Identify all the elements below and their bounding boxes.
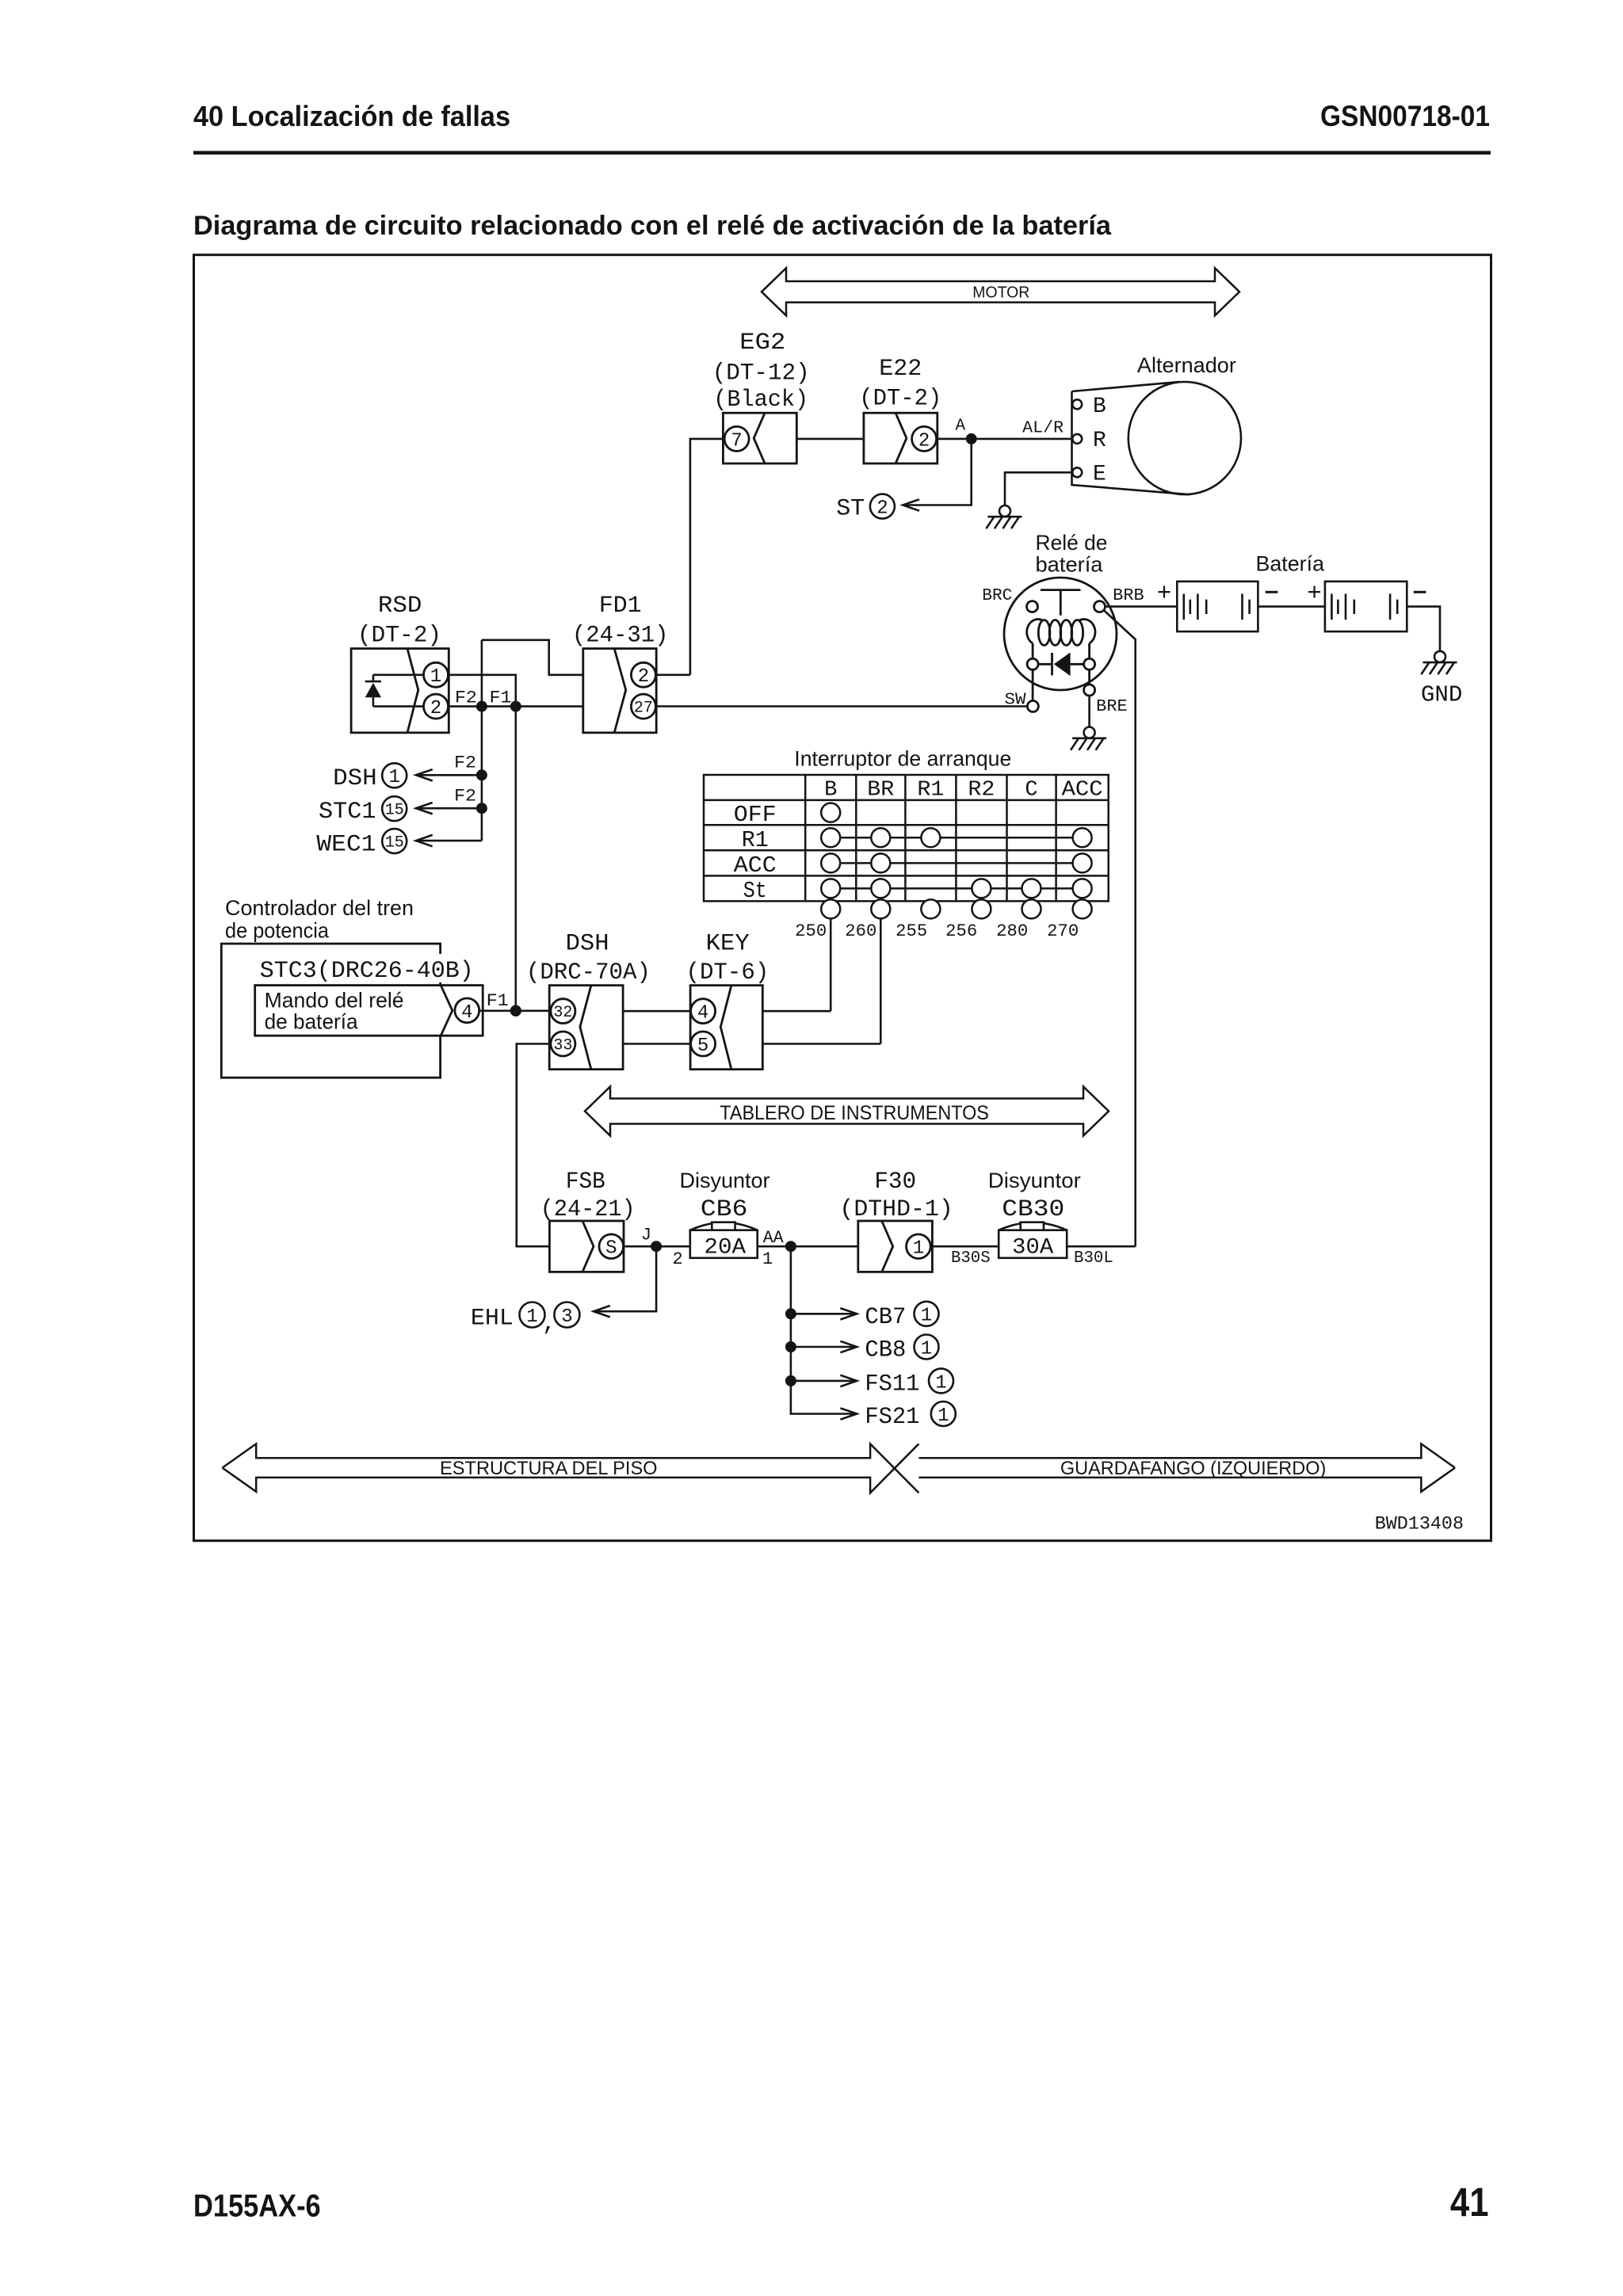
svg-text:F1: F1	[490, 688, 512, 708]
svg-text:TABLERO DE INSTRUMENTOS: TABLERO DE INSTRUMENTOS	[720, 1102, 989, 1124]
svg-text:GUARDAFANGO (IZQUIERDO): GUARDAFANGO (IZQUIERDO)	[1060, 1458, 1327, 1479]
svg-text:270: 270	[1047, 921, 1079, 941]
svg-text:(DT-2): (DT-2)	[859, 386, 941, 413]
wire E22 to node A to alternator R	[938, 438, 1072, 441]
wire KEY pin5 to terminal 260 riser	[762, 1043, 880, 1045]
row ACC contacts and links	[821, 853, 1091, 872]
svg-text:J: J	[641, 1226, 651, 1245]
svg-text:B: B	[824, 778, 837, 802]
rail diode to SW	[1032, 669, 1034, 700]
svg-text:BRC: BRC	[982, 587, 1012, 605]
arrowhead at ST	[903, 499, 919, 510]
svg-text:STC1: STC1	[319, 799, 376, 826]
svg-text:1: 1	[938, 1405, 949, 1427]
svg-text:255: 255	[896, 921, 927, 941]
alternator terminal B	[1072, 399, 1082, 409]
svg-text:2: 2	[638, 666, 649, 688]
DSH 1 branch	[416, 769, 482, 780]
connector DSH (DRC-70A)	[549, 986, 623, 1070]
svg-text:DSH: DSH	[333, 765, 377, 792]
wire FD1 pin27 to SW	[656, 705, 1027, 707]
junction dot F2	[476, 701, 487, 712]
wire AA riser down to FS21	[791, 1246, 857, 1413]
svg-text:EHL: EHL	[471, 1306, 514, 1333]
svg-text:A: A	[955, 418, 965, 436]
alternator terminal R	[1072, 434, 1082, 444]
svg-text:D155AX-6: D155AX-6	[193, 2189, 321, 2224]
row R1 contacts and links	[821, 828, 1091, 847]
svg-text:4: 4	[697, 1003, 708, 1024]
svg-text:CB7: CB7	[865, 1304, 906, 1331]
start switch table grid	[704, 775, 1109, 901]
svg-text:4: 4	[461, 1002, 472, 1024]
relay plunger T symbol	[1041, 590, 1081, 616]
svg-text:+: +	[1157, 578, 1171, 605]
wire RSD pin2 to FD1	[449, 705, 583, 707]
svg-text:1: 1	[913, 1238, 924, 1260]
row OFF contact	[821, 803, 840, 822]
relay diode D1 terminals	[1027, 658, 1038, 669]
mask for STC3 label over box edge	[434, 954, 480, 982]
svg-text:2: 2	[876, 498, 888, 520]
coil rails	[1033, 643, 1090, 658]
svg-text:1: 1	[921, 1338, 932, 1360]
svg-text:Alternador: Alternador	[1137, 353, 1236, 377]
wire BRE down to ground	[1088, 696, 1090, 727]
powertrain controller box	[221, 944, 440, 1077]
svg-text:WEC1: WEC1	[316, 831, 376, 858]
svg-text:F2: F2	[455, 688, 477, 708]
branch CB8	[791, 1341, 857, 1352]
BRB terminal circle	[1094, 601, 1106, 612]
wire alternator E to ground	[1005, 472, 1072, 505]
connector RSD (DT-2)	[351, 649, 449, 733]
svg-text:1: 1	[430, 666, 441, 688]
svg-text:OFF: OFF	[734, 802, 777, 828]
svg-text:B: B	[1093, 395, 1106, 419]
svg-text:27: 27	[634, 700, 653, 718]
STC1 15 branch	[416, 803, 482, 814]
svg-text:1: 1	[526, 1306, 537, 1328]
svg-text:(DT-12): (DT-12)	[712, 360, 810, 387]
wire EG2 pin7 to left corner and down to FD1 pin2 wire	[690, 439, 724, 675]
diode inside RSD	[365, 675, 424, 707]
svg-text:R2: R2	[968, 778, 995, 802]
BRC terminal circle	[1027, 601, 1038, 612]
WEC1 15 branch	[416, 835, 482, 846]
svg-text:2: 2	[430, 698, 441, 719]
svg-text:STC3(DRC26-40B): STC3(DRC26-40B)	[260, 958, 474, 985]
arrowhead at EHL	[594, 1306, 610, 1317]
wire J down and left to EHL	[594, 1246, 656, 1311]
wire battery2 to GND corner	[1407, 607, 1440, 651]
wire CB30 to B30L riser	[1067, 1245, 1136, 1248]
wire DSH pin33 to KEY pin5	[623, 1043, 690, 1045]
svg-text:(DT-2): (DT-2)	[357, 623, 441, 650]
svg-text:FD1: FD1	[599, 593, 642, 620]
row St contacts and links	[821, 879, 1091, 898]
connector F30 (DTHD-1)	[858, 1221, 933, 1272]
svg-text:280: 280	[996, 921, 1028, 941]
svg-text:BWD13408: BWD13408	[1375, 1514, 1464, 1535]
junction dot F1	[510, 701, 521, 712]
svg-text:FSB: FSB	[566, 1169, 605, 1196]
TABLERO DE INSTRUMENTOS double arrow	[585, 1087, 1109, 1136]
wire CB6 to AA to F30	[758, 1245, 858, 1248]
relay diode triangle	[1054, 653, 1071, 677]
svg-text:(24-21): (24-21)	[540, 1196, 636, 1223]
junction dot J	[651, 1241, 662, 1252]
relay coil L1	[1027, 620, 1044, 643]
svg-text:B30S: B30S	[951, 1249, 991, 1268]
svg-text:F2: F2	[454, 787, 476, 807]
svg-text:RSD: RSD	[378, 593, 422, 620]
wire KEY pin4 to terminal 250 riser	[762, 1010, 831, 1013]
svg-text:5: 5	[697, 1035, 708, 1057]
svg-text:ESTRUCTURA DEL PISO: ESTRUCTURA DEL PISO	[440, 1458, 658, 1479]
junction dot F1 at controller	[510, 1005, 521, 1016]
svg-text:250: 250	[795, 921, 827, 941]
svg-text:Disyuntor: Disyuntor	[988, 1169, 1081, 1192]
svg-text:F1: F1	[487, 991, 509, 1011]
circuit breaker CB30	[999, 1222, 1067, 1258]
branch FS11	[791, 1375, 857, 1386]
wire FD1 pin2 to vertical riser	[656, 673, 690, 676]
svg-text:ACC: ACC	[734, 852, 777, 879]
svg-text:1: 1	[935, 1372, 946, 1394]
switch terminal circles under table	[821, 899, 1091, 918]
connector EG2 (DT-12)(Black)	[723, 413, 796, 463]
svg-text:ACC: ACC	[1062, 778, 1103, 802]
STC3 connector box with signal cell	[255, 986, 483, 1036]
svg-text:20A: 20A	[704, 1236, 746, 1261]
ground symbol at alternator E	[986, 505, 1022, 528]
svg-text:Interruptor de arranque: Interruptor de arranque	[794, 747, 1011, 771]
svg-text:(DRC-70A): (DRC-70A)	[526, 959, 651, 986]
ESTRUCTURA DEL PISO arrow	[223, 1444, 919, 1493]
svg-text:32: 32	[553, 1004, 572, 1022]
svg-text:Controlador del tren: Controlador del tren	[225, 896, 414, 920]
svg-text:KEY: KEY	[706, 931, 750, 958]
svg-text:Relé de: Relé de	[1036, 531, 1108, 555]
battery BT2	[1325, 582, 1407, 631]
ground at BRE	[1084, 727, 1095, 738]
svg-text:Mando del relé: Mando del relé	[265, 989, 404, 1013]
svg-text:2: 2	[672, 1249, 682, 1269]
svg-text:1: 1	[762, 1249, 773, 1269]
wire DSH pin32 to KEY pin4	[623, 1010, 690, 1013]
svg-text:1: 1	[388, 767, 399, 788]
svg-text:7: 7	[731, 430, 742, 452]
battery relay K1 outline	[1004, 578, 1117, 712]
svg-text:B30L: B30L	[1074, 1249, 1113, 1268]
svg-text:2: 2	[918, 430, 930, 452]
wire BRB diagonal to B30L riser	[1104, 610, 1136, 1246]
svg-text:15: 15	[385, 802, 404, 820]
svg-text:15: 15	[385, 834, 404, 852]
svg-text:C: C	[1025, 778, 1037, 802]
wire RSD pin1 down to F1 junction	[449, 675, 516, 707]
svg-text:CB30: CB30	[1002, 1196, 1064, 1223]
diode cathode bar	[1051, 653, 1053, 676]
svg-text:CB8: CB8	[865, 1337, 906, 1364]
svg-text:ST: ST	[836, 496, 865, 523]
wire node A down and left to ST	[903, 439, 972, 505]
wire FSB pin S to J	[624, 1245, 690, 1248]
node A junction dot	[966, 433, 977, 444]
svg-text:(Black): (Black)	[713, 387, 808, 414]
svg-text:MOTOR: MOTOR	[972, 284, 1029, 302]
net F2 top link to FD1 pin2	[482, 640, 583, 675]
circuit breaker CB6	[690, 1222, 758, 1258]
svg-text:F30: F30	[874, 1169, 916, 1196]
svg-text:GSN00718-01: GSN00718-01	[1320, 100, 1490, 132]
svg-text:3: 3	[561, 1306, 572, 1328]
wire DSH pin33 down to FSB	[517, 1044, 550, 1247]
svg-text:Disyuntor: Disyuntor	[679, 1169, 769, 1192]
svg-text:40 Localización de fallas: 40 Localización de fallas	[193, 100, 510, 132]
svg-text:EG2: EG2	[739, 330, 785, 357]
svg-text:(DTHD-1): (DTHD-1)	[839, 1196, 953, 1223]
svg-text:Diagrama de circuito relaciona: Diagrama de circuito relacionado con el …	[193, 211, 1112, 241]
svg-text:BRE: BRE	[1096, 698, 1128, 716]
wire BRB to battery 1	[1106, 605, 1178, 608]
connector FD1 (24-31)	[583, 649, 656, 733]
svg-text:de batería: de batería	[265, 1010, 359, 1034]
svg-text:S: S	[605, 1238, 617, 1260]
svg-text:E22: E22	[879, 356, 922, 383]
svg-text:F2: F2	[454, 753, 476, 773]
junction dot AA	[785, 1241, 796, 1252]
wire terminal 250 to KEY pin4 row	[830, 918, 832, 1011]
svg-text:R1: R1	[917, 778, 944, 802]
svg-text:GND: GND	[1421, 682, 1462, 708]
wire terminal 260 to KEY pin5 row	[880, 918, 882, 1043]
svg-text:St: St	[743, 878, 767, 904]
svg-text:(DT-6): (DT-6)	[686, 959, 769, 986]
svg-text:Batería: Batería	[1256, 552, 1325, 576]
wire battery1 to battery2	[1258, 605, 1325, 608]
wire F30 to CB30	[932, 1245, 999, 1248]
svg-text:AL/R: AL/R	[1022, 420, 1064, 438]
alternator body	[1072, 382, 1242, 494]
battery BT1	[1177, 582, 1258, 631]
branch FS21 arrowhead	[840, 1408, 857, 1419]
connector FSB (24-21)	[549, 1221, 624, 1272]
alternator terminal E	[1072, 467, 1082, 477]
svg-text:33: 33	[553, 1037, 572, 1055]
svg-text:260: 260	[845, 921, 876, 941]
svg-text:BR: BR	[867, 778, 894, 802]
svg-text:DSH: DSH	[566, 931, 609, 958]
net F2 riser	[481, 640, 483, 841]
svg-text:(24-31): (24-31)	[572, 623, 669, 650]
rail diode to BRE	[1088, 669, 1090, 685]
svg-text:E: E	[1093, 463, 1106, 487]
wire STC3 pin4 to DSH pin32	[479, 1010, 550, 1013]
header rule	[193, 151, 1491, 155]
diagram border frame	[194, 255, 1491, 1541]
svg-text:+: +	[1307, 578, 1321, 605]
svg-text:AA: AA	[763, 1228, 785, 1248]
svg-text:BRB: BRB	[1113, 587, 1144, 605]
svg-text:30A: 30A	[1012, 1236, 1053, 1261]
SW terminal circle	[1027, 701, 1038, 712]
ST pin 2 circle	[870, 494, 895, 519]
svg-text:41: 41	[1450, 2180, 1489, 2225]
net F1 riser to controller junction	[514, 707, 517, 1011]
MOTOR region double arrow	[762, 268, 1239, 315]
BRE terminal circle	[1084, 685, 1095, 696]
svg-text:CB6: CB6	[701, 1196, 748, 1223]
wire EG2 to E22	[796, 438, 864, 441]
svg-text:R: R	[1093, 429, 1106, 453]
branch CB7	[791, 1308, 857, 1319]
ground GND symbol	[1434, 651, 1445, 662]
GUARDAFANGO arrow	[918, 1444, 1455, 1491]
svg-text:batería: batería	[1036, 553, 1104, 577]
svg-text:R1: R1	[742, 827, 769, 853]
connector KEY (DT-6)	[690, 986, 762, 1070]
svg-text:1: 1	[921, 1306, 932, 1327]
svg-text:de potencia: de potencia	[225, 919, 330, 943]
svg-text:256: 256	[945, 921, 977, 941]
svg-text:FS21: FS21	[865, 1404, 919, 1431]
connector E22 (DT-2)	[864, 413, 938, 463]
svg-text:FS11: FS11	[865, 1371, 919, 1398]
